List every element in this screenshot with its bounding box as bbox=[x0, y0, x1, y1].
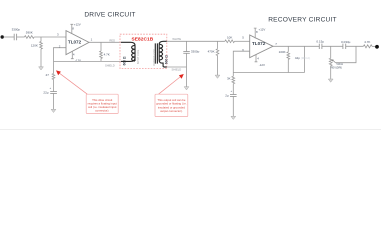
primary winding bbox=[121, 42, 135, 45]
pin 6 feedback wire bbox=[233, 51, 249, 72]
capacitor C7 0.033u bbox=[343, 44, 346, 49]
svg-text:3K: 3K bbox=[227, 76, 231, 80]
svg-text:SE82C1B: SE82C1B bbox=[132, 36, 154, 42]
svg-text:-12V: -12V bbox=[259, 63, 265, 67]
pin 4 -12V supply bbox=[71, 51, 74, 58]
wire input to C1 bbox=[4, 36, 14, 38]
pin 8 +12V supply bbox=[70, 24, 73, 34]
ground (22u) bbox=[51, 109, 56, 112]
pot wiper wire bbox=[335, 46, 356, 62]
feedback bottom wire bbox=[54, 60, 122, 62]
svg-text:INPUT COIL: INPUT COIL bbox=[136, 49, 140, 64]
capacitor C4 44p bbox=[304, 46, 306, 72]
svg-text:0.15µ: 0.15µ bbox=[316, 39, 324, 43]
resistor R8 3K bbox=[232, 73, 234, 95]
recovery top wire bbox=[167, 40, 225, 42]
resistor R9 4.7K bbox=[363, 45, 372, 48]
svg-text:+: + bbox=[50, 86, 52, 90]
svg-text:SHIELD: SHIELD bbox=[105, 63, 115, 67]
pin 5 node bbox=[250, 41, 252, 43]
svg-text:TL072: TL072 bbox=[252, 41, 266, 46]
resistor R2 120K bbox=[40, 37, 42, 67]
secondary winding bbox=[159, 41, 167, 44]
ground (C5) bbox=[231, 116, 236, 119]
svg-text:+: + bbox=[231, 89, 233, 93]
svg-text:47: 47 bbox=[46, 73, 50, 77]
svg-text:120K: 120K bbox=[31, 43, 38, 47]
svg-text:REV(DRI): REV(DRI) bbox=[331, 66, 343, 70]
svg-text:100K: 100K bbox=[279, 50, 286, 54]
svg-text:44p (MICA): 44p (MICA) bbox=[295, 56, 310, 60]
svg-text:WHITE: WHITE bbox=[172, 37, 181, 41]
ground (pot) bbox=[328, 79, 333, 82]
faint page edge line bbox=[0, 128, 381, 131]
svg-text:TL072: TL072 bbox=[68, 40, 82, 45]
svg-text:22µ: 22µ bbox=[43, 90, 48, 94]
core bbox=[155, 43, 157, 63]
ground (shield/C3) bbox=[184, 87, 189, 90]
pin 3 node bbox=[66, 36, 68, 38]
transformer T1 box SE82C1B bbox=[120, 34, 167, 68]
note box left bbox=[86, 94, 118, 113]
svg-text:4.7K: 4.7K bbox=[104, 52, 110, 56]
pin 4 -12V supply (U2) bbox=[255, 55, 258, 62]
op-amp U1 TL072 bbox=[66, 31, 89, 55]
callout arrow left bbox=[59, 73, 87, 94]
ground (120K) bbox=[39, 67, 44, 70]
svg-text:-12V: -12V bbox=[75, 59, 81, 63]
op-amp U2 TL072 bbox=[250, 35, 273, 58]
resistor R4 47 bbox=[53, 61, 55, 91]
svg-text:10K: 10K bbox=[227, 36, 232, 40]
svg-text:SHIELD: SHIELD bbox=[172, 68, 182, 72]
shield wire to ground line bbox=[167, 66, 187, 68]
svg-text:600 Ω: 600 Ω bbox=[165, 55, 169, 64]
resistor R5 470K bbox=[217, 41, 219, 75]
capacitor C3 3300p bbox=[186, 41, 188, 51]
feedback bottom wire bbox=[233, 72, 304, 74]
svg-text:DRIVE CIRCUIT: DRIVE CIRCUIT bbox=[84, 12, 135, 19]
svg-text:+12V: +12V bbox=[259, 27, 266, 31]
resistor R6 10K bbox=[225, 40, 235, 43]
pin 8 +12V supply (U2) bbox=[254, 28, 257, 38]
svg-text:590K: 590K bbox=[26, 30, 33, 34]
svg-text:600 Ω: 600 Ω bbox=[122, 56, 126, 65]
svg-text:RECOVERY CIRCUIT: RECOVERY CIRCUIT bbox=[268, 17, 337, 24]
note box right bbox=[155, 94, 188, 116]
input terminal node bbox=[1, 35, 4, 38]
svg-text:output connector).: output connector). bbox=[160, 109, 183, 113]
wire pin2 feedback bbox=[54, 48, 67, 62]
svg-text:0.033µ: 0.033µ bbox=[341, 40, 351, 44]
wire op-amp output to transformer bbox=[89, 41, 121, 43]
resistor R1 590K bbox=[25, 36, 35, 39]
resistor R7 100K bbox=[287, 46, 289, 72]
ground (470K) bbox=[215, 75, 220, 78]
svg-text:3300p: 3300p bbox=[12, 27, 21, 31]
wire R1 to op-amp pin 3 bbox=[34, 36, 66, 38]
svg-text:RED: RED bbox=[109, 39, 115, 43]
svg-text:+12V: +12V bbox=[74, 23, 81, 27]
svg-text:470K: 470K bbox=[208, 50, 215, 54]
capacitor C6 0.15u bbox=[319, 44, 322, 49]
svg-text:4.7K: 4.7K bbox=[364, 40, 370, 44]
recovery output wire bbox=[273, 45, 319, 47]
callout arrow right bbox=[159, 77, 181, 95]
capacitor C1 3300p bbox=[14, 34, 16, 40]
resistor R3 4.7K bbox=[100, 42, 102, 61]
svg-text:connector).: connector). bbox=[95, 109, 109, 113]
svg-text:2µ: 2µ bbox=[225, 94, 229, 98]
svg-text:OUTPUT COIL: OUTPUT COIL bbox=[152, 48, 156, 66]
wire C1 to R1 bbox=[17, 36, 25, 38]
potentiometer 50K REV bbox=[330, 46, 332, 79]
output terminal node bbox=[375, 45, 379, 49]
svg-text:3300p: 3300p bbox=[191, 49, 200, 53]
